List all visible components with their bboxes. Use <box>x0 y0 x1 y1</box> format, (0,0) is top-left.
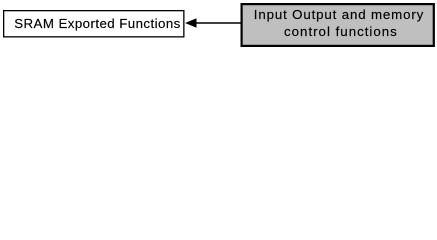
node N1: Input Output and memory control functions (gray current-node box) <box>242 4 434 46</box>
label N1 line 2: control functions <box>284 24 398 40</box>
arrowhead pointing at N2 <box>186 19 196 28</box>
wire: dependency edge N2 to N1 <box>196 22 241 24</box>
label N1 line 1: Input Output and memory <box>254 7 424 23</box>
label N2: SRAM Exported Functions <box>14 16 181 32</box>
node N2: SRAM Exported Functions (white box) <box>4 11 184 37</box>
